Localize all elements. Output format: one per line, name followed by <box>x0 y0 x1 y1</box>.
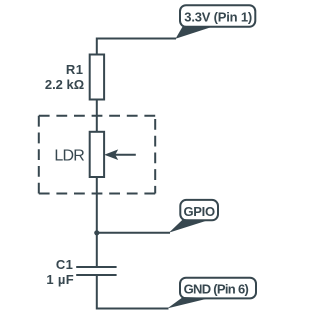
wire GPIO horizontal <box>97 232 170 234</box>
wire LDR to capacitor <box>96 177 98 267</box>
svg-text:GND (Pin 6): GND (Pin 6) <box>184 281 249 296</box>
wire capacitor to bottom <box>96 275 98 308</box>
arrow pointing at LDR <box>114 154 136 156</box>
resistor R1 <box>90 55 104 100</box>
wire bottom horizontal to GND callout <box>96 308 169 310</box>
LDR resistor body <box>90 132 104 177</box>
svg-text:3.3V (Pin 1): 3.3V (Pin 1) <box>184 10 252 25</box>
svg-text:GPIO: GPIO <box>184 204 215 219</box>
callout tail 3.3V <box>176 26 213 39</box>
callout box 3.3V (Pin 1) <box>180 5 255 27</box>
capacitor C1 top plate <box>76 266 116 268</box>
callout box GND (Pin 6) <box>180 278 256 299</box>
dashed enclosure box <box>39 116 155 194</box>
svg-text:1 µF: 1 µF <box>46 272 74 287</box>
wire top horizontal to 3.3V callout <box>97 38 176 40</box>
wire vertical top to R1 <box>96 38 98 55</box>
wire R1 to LDR <box>96 100 98 132</box>
callout box GPIO <box>180 200 218 220</box>
callout tail GPIO <box>169 219 208 232</box>
node junction dot <box>94 230 99 235</box>
svg-text:2.2 kΩ: 2.2 kΩ <box>45 77 84 92</box>
svg-text:C1: C1 <box>56 257 73 272</box>
svg-text:R1: R1 <box>66 62 84 77</box>
callout tail GND <box>167 297 210 308</box>
svg-text:LDR: LDR <box>54 148 84 165</box>
capacitor C1 bottom plate <box>76 274 116 276</box>
